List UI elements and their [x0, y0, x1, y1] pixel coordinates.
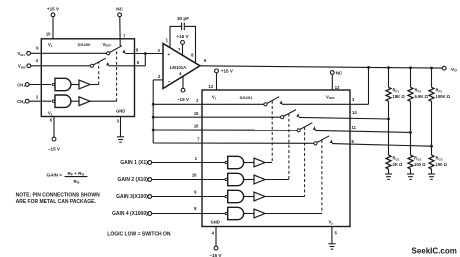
svg-text:V1: V1: [48, 42, 53, 48]
svg-text:10: 10: [194, 124, 199, 129]
svg-text:10: 10: [46, 32, 51, 37]
svg-text:100 Ω: 100 Ω: [436, 162, 448, 167]
svg-text:15: 15: [194, 111, 199, 116]
svg-text:VREF: VREF: [103, 42, 112, 48]
svg-text:GAIN 3(X100): GAIN 3(X100): [116, 194, 148, 200]
svg-text:VIN2: VIN2: [18, 64, 26, 70]
svg-text:+15 V: +15 V: [176, 34, 189, 39]
svg-text:V2: V2: [329, 220, 334, 226]
svg-text:VIN1: VIN1: [18, 51, 26, 57]
svg-text:+: +: [168, 52, 171, 57]
svg-text:ARE FOR METAL CAN PACKAGE.: ARE FOR METAL CAN PACKAGE.: [16, 199, 97, 205]
svg-text:RG3: RG3: [436, 156, 443, 162]
svg-text:CH2: CH2: [17, 99, 25, 105]
svg-text:100 Ω: 100 Ω: [414, 162, 426, 167]
svg-text:–15 V: –15 V: [48, 147, 61, 152]
svg-text:RF3: RF3: [436, 88, 443, 94]
svg-text:V1: V1: [212, 95, 217, 101]
svg-text:2K Ω: 2K Ω: [393, 162, 404, 167]
svg-text:GAIN 4 (X1000): GAIN 4 (X1000): [112, 211, 148, 217]
svg-text:GAIN 2 (X10): GAIN 2 (X10): [118, 177, 149, 183]
svg-text:SeekIC.com: SeekIC.com: [412, 247, 457, 256]
svg-text:GAIN =: GAIN =: [47, 173, 63, 178]
svg-text:+15 V: +15 V: [47, 7, 60, 12]
svg-text:16: 16: [192, 173, 197, 178]
svg-text:LOGIC LOW = SWITCH ON: LOGIC LOW = SWITCH ON: [107, 232, 171, 238]
svg-text:+15 V: +15 V: [221, 69, 234, 74]
svg-text:LM101A: LM101A: [170, 65, 186, 70]
svg-text:RG1: RG1: [393, 156, 400, 162]
svg-text:12: 12: [335, 85, 340, 90]
svg-text:NOTE: PIN CONNECTIONS SHOWN: NOTE: PIN CONNECTIONS SHOWN: [16, 193, 101, 199]
svg-text:DG201: DG201: [240, 95, 253, 100]
svg-text:GAIN 1 (X1): GAIN 1 (X1): [120, 160, 148, 166]
svg-text:–15 V: –15 V: [177, 97, 190, 102]
svg-text:RF1: RF1: [393, 88, 400, 94]
svg-text:9.9K Ω: 9.9K Ω: [415, 94, 429, 99]
svg-text:100K Ω: 100K Ω: [436, 94, 451, 99]
svg-text:RG2: RG2: [414, 156, 421, 162]
svg-text:14: 14: [352, 110, 357, 115]
svg-text:30 pF: 30 pF: [177, 16, 189, 21]
svg-text:NC: NC: [116, 7, 123, 12]
svg-text:NC: NC: [336, 70, 343, 75]
svg-text:–: –: [168, 79, 171, 85]
svg-text:11: 11: [352, 125, 357, 130]
svg-text:CH1: CH1: [17, 82, 25, 88]
svg-text:VREF: VREF: [326, 94, 335, 100]
svg-text:GND: GND: [116, 109, 125, 114]
svg-text:RF2: RF2: [415, 88, 422, 94]
svg-text:–15 V: –15 V: [209, 253, 222, 257]
svg-text:GND: GND: [211, 220, 220, 225]
svg-text:DG200: DG200: [78, 42, 91, 47]
svg-text:18K Ω: 18K Ω: [393, 94, 406, 99]
svg-text:V2: V2: [48, 111, 53, 117]
svg-text:13: 13: [208, 84, 213, 89]
